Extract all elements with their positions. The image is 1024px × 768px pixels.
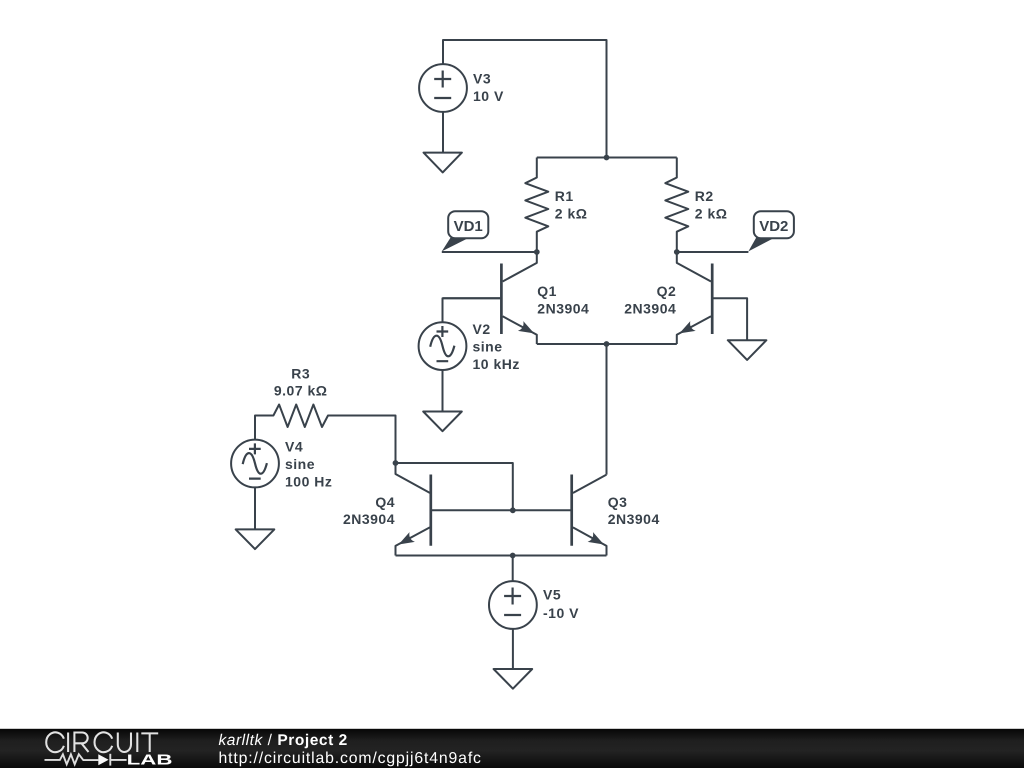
svg-text:2 kΩ: 2 kΩ [555,205,588,221]
svg-text:V2: V2 [473,321,491,337]
transistor Q1 2N3904 [443,252,589,344]
svg-text:R2: R2 [695,188,714,204]
svg-text:Q1: Q1 [537,283,557,299]
svg-text:2N3904: 2N3904 [343,511,395,527]
wire collector supply rail R1-R2 [537,157,677,159]
ground under V5 [494,669,533,689]
svg-text:sine: sine [285,456,315,472]
wire emitter rail down to Q3 collector [606,344,608,475]
svg-text:10 V: 10 V [473,88,504,104]
wire R2 bottom to VD2 flag [677,251,749,253]
svg-text:10 kHz: 10 kHz [473,356,520,372]
svg-text:VD1: VD1 [454,218,483,235]
wire Q4 collector to base tie [396,463,513,510]
wire top rail from V3 to R1/R2 column [443,40,607,158]
node junction base tie [510,507,516,513]
svg-text:http://circuitlab.com/cgpjj6t4: http://circuitlab.com/cgpjj6t4n9afc [219,750,482,767]
wire base rail Q4-Q3 [431,509,572,511]
svg-text:Q3: Q3 [608,494,628,510]
wire emitter rail Q1-Q2 [537,343,677,345]
node junction top rail [604,155,610,161]
svg-text:R1: R1 [555,188,574,204]
svg-text:9.07 kΩ: 9.07 kΩ [274,383,328,399]
transistor Q4 2N3904 [343,463,431,556]
transistor Q3 2N3904 [572,475,660,556]
svg-text:VD2: VD2 [759,218,788,235]
svg-text:-10 V: -10 V [543,605,579,621]
ground under V4 [236,529,275,549]
svg-text:Q2: Q2 [657,283,677,299]
CircuitLab logo: resistor-diode glyph and LAB [45,754,127,766]
svg-text:2N3904: 2N3904 [537,300,589,316]
svg-text:LAB: LAB [127,752,173,768]
svg-text:R3: R3 [291,365,310,381]
svg-text:karlltk / Project 2: karlltk / Project 2 [219,732,348,749]
svg-text:100 Hz: 100 Hz [285,474,332,490]
svg-text:2N3904: 2N3904 [624,300,676,316]
ground at Q2 base [728,340,767,360]
svg-text:2N3904: 2N3904 [608,511,660,527]
wire R1 bottom to VD1 flag [442,251,537,253]
resistor R1 2 kOhm [525,158,587,253]
svg-text:V4: V4 [285,439,303,455]
resistor R2 2 kOhm [665,158,727,253]
flag VD2 [748,211,793,251]
svg-text:Q4: Q4 [375,494,395,510]
ground under V2 [423,412,462,432]
wire bottom emitter rail Q4-Q3 [396,555,607,557]
node junction R3/Q4 collector [393,460,399,466]
ground under V3 [424,153,462,173]
node junction R1/Q1 collector [534,249,540,255]
node junction bottom rail / V5 [510,553,516,559]
resistor R3 9.07 kOhm [255,365,396,463]
node junction emitter rail [604,341,610,347]
voltage source V3 [419,64,504,153]
transistor Q2 2N3904 [624,252,747,344]
svg-text:V5: V5 [543,586,561,602]
flag VD1 [442,211,489,251]
svg-text:V3: V3 [473,71,491,87]
svg-text:sine: sine [473,339,503,355]
voltage source V5 [489,556,579,670]
voltage source V2 sine [419,298,520,411]
svg-text:2 kΩ: 2 kΩ [695,205,728,221]
node junction R2/Q2 collector [674,249,680,255]
voltage source V4 sine [231,439,332,530]
CircuitLab logo: CIRCUIT [46,732,158,752]
